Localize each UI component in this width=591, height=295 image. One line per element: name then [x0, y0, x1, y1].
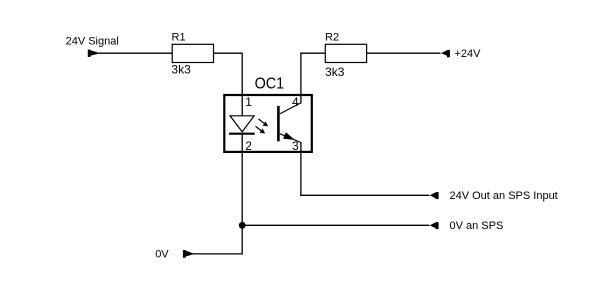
- svg-text:1: 1: [245, 95, 252, 109]
- svg-text:+24V: +24V: [455, 48, 482, 60]
- transistor emitter line: [280, 134, 301, 143]
- svg-text:OC1: OC1: [255, 76, 285, 93]
- wire R1 to node corner: [214, 52, 243, 54]
- wire corner down to OC1 pin 1 / LED anode: [241, 53, 243, 116]
- wire emitter down and right to 24V Out port: [300, 142, 302, 196]
- svg-text:R1: R1: [172, 32, 186, 44]
- junction node 0V: [239, 222, 246, 229]
- svg-text:R2: R2: [325, 32, 339, 44]
- svg-text:0V an SPS: 0V an SPS: [450, 220, 504, 232]
- transistor collector line: [280, 103, 301, 114]
- transistor emitter arrow: [283, 132, 295, 140]
- port arrow 0V an SPS: [429, 222, 439, 229]
- port arrow 24V Signal: [88, 50, 99, 57]
- transistor Q (photo-transistor of OC1) base bar: [277, 106, 280, 141]
- port arrow +24V: [440, 50, 450, 57]
- svg-text:3k3: 3k3: [171, 63, 191, 77]
- resistor R2: [325, 44, 366, 62]
- wire R2 to +24V: [367, 52, 441, 54]
- svg-text:2: 2: [245, 139, 252, 153]
- wire collector up to R2: [300, 53, 302, 103]
- resistor R1: [172, 44, 213, 62]
- wire LED cathode down through box to junction and 0V corner: [241, 134, 243, 255]
- wire 24V Signal to R1: [99, 52, 173, 54]
- svg-text:24V Signal: 24V Signal: [66, 36, 119, 48]
- svg-text:24V Out an SPS Input: 24V Out an SPS Input: [450, 190, 558, 202]
- LED D (emitter diode of OC1): [229, 116, 255, 134]
- light arrows: [256, 119, 268, 133]
- port arrow 0V: [183, 250, 194, 258]
- svg-text:3k3: 3k3: [325, 65, 345, 79]
- wire junction to 0V an SPS port: [242, 224, 429, 226]
- port arrow 24V Out an SPS Input: [429, 192, 439, 199]
- svg-text:0V: 0V: [155, 248, 169, 260]
- optocoupler OC1 box: [224, 95, 311, 152]
- wire down to 0V corner and left to 0V port: [193, 253, 242, 255]
